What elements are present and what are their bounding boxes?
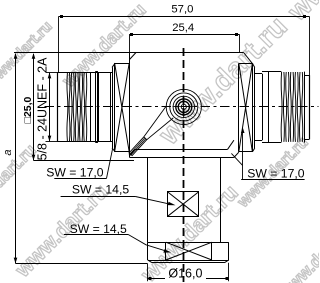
left washer [95, 71, 97, 142]
body central block outline [130, 53, 137, 60]
square arrow square25 top [32, 53, 36, 59]
svg-text:SW = 17,0: SW = 17,0 [46, 166, 103, 180]
arrows 5/8 dim [48, 73, 52, 79]
left connector face [57, 73, 59, 142]
leader SW17 left [54, 178, 106, 180]
arrow SW14.5 upper leader [168, 202, 176, 206]
arrow a bottom [14, 258, 18, 264]
node square25 bottom extension [34, 160, 135, 162]
spring pointer lines [144, 107, 166, 137]
bottom nut block [148, 242, 229, 244]
leader SW17 right [241, 179, 304, 181]
right connector neck [255, 73, 262, 75]
dimension 57.0 line [59, 16, 310, 18]
svg-text:SW = 14,5: SW = 14,5 [72, 183, 129, 197]
body left X panel [114, 63, 116, 152]
capsule center cross [173, 106, 196, 108]
dimension a vertical line [15, 54, 17, 264]
svg-text:Ø16,0: Ø16,0 [168, 266, 202, 280]
left hex nut SW17 [98, 73, 100, 142]
bottom stub [147, 158, 149, 243]
svg-text:a: a [2, 149, 14, 155]
arrow square25 bottom [32, 155, 36, 161]
body left face band [112, 67, 114, 148]
arrow SW14.5 lower leader [164, 249, 172, 252]
square arrow a top [14, 53, 18, 59]
spring tip stick [129, 137, 147, 156]
axis horizontal centerline [45, 106, 319, 108]
arrow SW17 right leader up [241, 127, 245, 133]
svg-text:57,0: 57,0 [171, 3, 193, 15]
leader SW14.5 lower [64, 234, 128, 236]
svg-text:5/8 - 24UNEF - 2A: 5/8 - 24UNEF - 2A [35, 57, 49, 160]
gas capsule circles [166, 89, 201, 124]
svg-text:SW = 14,5: SW = 14,5 [70, 222, 127, 236]
square arrows dia16 [149, 277, 152, 280]
right connector threads [281, 72, 303, 142]
svg-text:□25,0: □25,0 [22, 96, 34, 123]
dimension 5/8 thread dia line [49, 73, 51, 142]
right connector tip [304, 75, 309, 77]
svg-text:25,4: 25,4 [172, 22, 194, 34]
left thread runout [90, 73, 92, 141]
square arrows 25.4 [130, 33, 133, 36]
wire top extension line y=52.3 [14, 52, 244, 54]
dimension 25.4 line [129, 34, 239, 36]
body right X panel [238, 63, 240, 151]
holder X square [168, 192, 199, 217]
dimension square25 line [33, 54, 35, 161]
svg-text:SW = 17,0: SW = 17,0 [247, 167, 304, 181]
left connector threads [67, 73, 87, 141]
body right face band [254, 68, 256, 149]
node a bottom extension [16, 263, 148, 265]
vertical centerline [183, 48, 185, 282]
square arrows 57.0 [60, 15, 63, 18]
right connector flange [268, 71, 270, 142]
leader SW14.5 upper [61, 196, 136, 198]
dimension dia16 [147, 264, 149, 282]
